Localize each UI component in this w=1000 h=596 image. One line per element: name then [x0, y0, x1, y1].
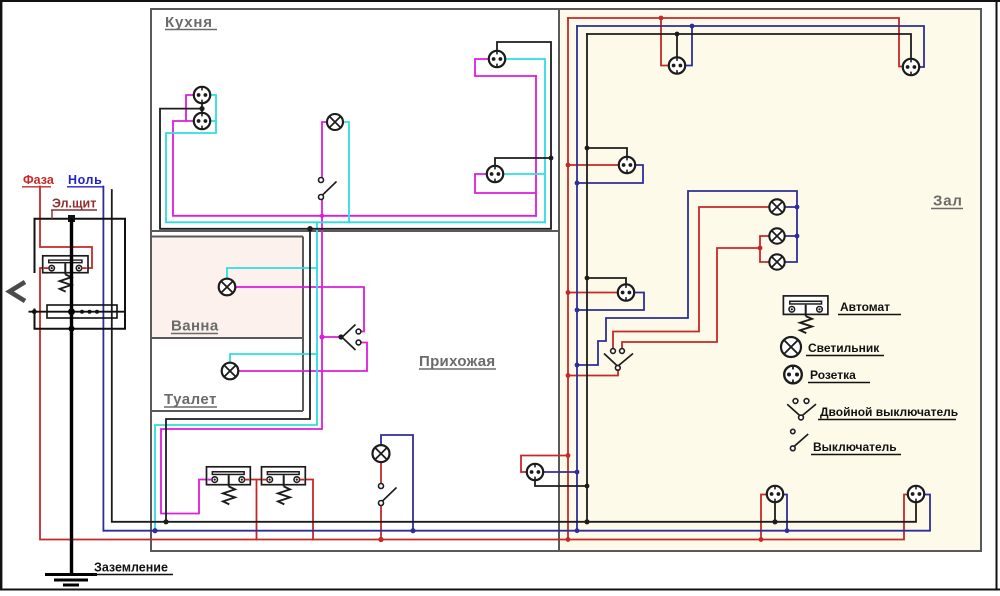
svg-text:Светильник: Светильник — [808, 341, 880, 355]
wire: double switch to lamp 1 (red) — [613, 207, 769, 349]
wire: breaker A1 terminal dashes — [208, 479, 250, 481]
wire: bottom socket A phase tap (red) — [761, 495, 767, 540]
label Светильник — [806, 341, 884, 356]
collapse arrow glyph — [10, 282, 26, 301]
svg-text:Фаза: Фаза — [23, 173, 55, 187]
wire: hallway lamp-switch drop (red) — [380, 462, 382, 540]
wall toilet bottom — [151, 410, 303, 412]
panel neutral bus bar — [29, 305, 126, 318]
bathroom (Ванна) background — [152, 237, 302, 337]
wire: living room top neutral bus (blue) — [577, 26, 924, 67]
lamp bath — [219, 279, 236, 296]
wire: kitchen left sockets neutral (cyan) — [166, 95, 545, 222]
svg-text:Заземление: Заземление — [94, 561, 168, 575]
node: living ground socket3 — [585, 146, 590, 151]
node: kitchen right ground — [549, 156, 554, 161]
socket kitchen L2 — [194, 113, 210, 129]
node: phase double switch — [566, 373, 571, 378]
svg-text:Выключатель: Выключатель — [813, 440, 897, 454]
node: lamp2 neutral — [795, 234, 800, 239]
ground symbol — [45, 575, 97, 586]
label Эл.щит — [51, 197, 97, 219]
wire: left socket 1 neutral loop (blue) — [577, 165, 643, 183]
node: phase top tap — [659, 16, 664, 21]
wire: kitchen right socket 1 phase (magenta) — [475, 59, 536, 76]
panel breaker spring — [60, 274, 72, 291]
wire: hallway socket neutral (blue) — [543, 471, 577, 473]
breaker A1 (hallway) — [207, 467, 251, 505]
label Кухня — [165, 14, 217, 31]
switch kitchen — [319, 178, 337, 200]
wire: top-center socket ground drop (black) — [676, 34, 678, 57]
lamp hallway — [373, 445, 390, 462]
page top rule — [0, 0, 1000, 2]
lamp kitchen — [327, 114, 343, 130]
node: neutral socket A tap — [785, 528, 790, 533]
node: kitchen ground tap — [307, 226, 313, 232]
wire: neutral lead-in Ноль riser (blue) — [102, 187, 104, 531]
panel input node (square) — [68, 215, 75, 222]
label Двойной выключатель — [818, 405, 958, 420]
wire: lamp group neutral loop (blue) — [577, 191, 797, 365]
node: neutral socket3 — [575, 181, 580, 186]
lamp living 2 — [769, 228, 784, 243]
node: living ground socket4 — [585, 276, 590, 281]
label Заземление — [93, 561, 173, 575]
node: neutral hall socket — [575, 470, 580, 475]
socket living left-upper — [619, 157, 635, 173]
node: neutral socket4 — [575, 308, 580, 313]
label Прихожая — [419, 353, 496, 370]
wire: hallway socket ground (black) — [535, 480, 587, 486]
legend breaker symbol — [783, 296, 828, 333]
wire: kitchen lamp feed via switch (magenta) — [322, 122, 328, 177]
label Автомат — [838, 300, 901, 315]
node: phase hall switch — [378, 537, 383, 542]
node: neutral riser to bus — [152, 528, 157, 533]
wire: phase lead-in Фаза to panel breaker (red) — [40, 187, 92, 269]
wire: kitchen ground riser (black) — [166, 229, 310, 522]
wire: kitchen right sockets neutral (cyan) — [503, 59, 545, 222]
socket living bottom B — [908, 486, 924, 502]
node: neutral top tap — [690, 24, 695, 29]
wire: left socket 2 phase branch (red) — [568, 292, 618, 294]
wall kitchen bottom — [151, 230, 559, 232]
socket kitchen R2 — [487, 166, 503, 182]
wire: ground bottom bus (black) — [112, 190, 916, 522]
svg-text:Автомат: Автомат — [840, 300, 890, 314]
legend switch symbol — [790, 429, 808, 450]
label Туалет — [164, 391, 217, 408]
svg-text:Двойной выключатель: Двойной выключатель — [820, 405, 958, 419]
label Ноль — [67, 173, 104, 187]
label Ванна — [171, 318, 219, 335]
svg-text:Ноль: Ноль — [68, 173, 102, 187]
wire: breaker A2 output (red) — [306, 480, 313, 540]
wire: toilet lamp feed (magenta) — [238, 343, 367, 372]
label Зал — [931, 193, 963, 210]
wire: kitchen left sockets phase (magenta) — [173, 95, 536, 216]
legend lamp symbol — [781, 337, 801, 357]
node: living ground riser top — [675, 32, 680, 37]
wire: left socket 1 phase branch (red) — [568, 164, 619, 166]
node: phase socket3 — [566, 163, 571, 168]
svg-text:Кухня: Кухня — [165, 14, 213, 31]
wire: breaker A2 terminal dashes — [263, 479, 305, 481]
label Фаза — [22, 173, 55, 187]
lamp living 3 — [769, 254, 784, 269]
node: lamps 2-3 feed — [758, 246, 763, 251]
wire: living room top ground bus (black) — [587, 34, 911, 59]
breaker A2 (hallway) — [262, 467, 306, 505]
wire: bath lamp feed (magenta) — [235, 287, 364, 332]
wire: kitchen sockets ground bus (black) — [160, 42, 551, 229]
svg-text:Ванна: Ванна — [171, 318, 219, 335]
wire: kitchen lamp neutral (cyan) — [343, 122, 349, 222]
page bottom rule — [0, 589, 1000, 591]
wire: top-center socket neutral drop (blue) — [685, 26, 692, 66]
legend double switch symbol — [787, 399, 816, 420]
lamp living 1 — [769, 199, 784, 214]
node: kitchen phase bus tap — [320, 214, 324, 218]
apartment outer wall — [151, 9, 981, 551]
svg-text:Эл.щит: Эл.щит — [52, 197, 96, 211]
panel main breaker — [43, 256, 88, 275]
wire: left socket 2 neutral loop (blue) — [577, 293, 644, 311]
node: living ground hall socket — [585, 484, 590, 489]
wall bath right — [302, 237, 304, 412]
wire: living room neutral riser (blue) — [576, 26, 578, 531]
node: living ground bus corner — [584, 519, 589, 524]
socket kitchen L1 — [194, 87, 210, 103]
wire: top-center socket phase drop (red) — [661, 18, 669, 66]
node: bath switch tap — [319, 334, 324, 339]
socket living bottom A — [767, 486, 783, 502]
socket hallway — [527, 464, 543, 480]
svg-text:Прихожая: Прихожая — [419, 353, 495, 370]
node: kitchen sockets link — [199, 106, 204, 111]
wire: kitchen-bath phase riser to breaker A1 (magenta) — [161, 200, 322, 514]
wire: phase bus from breaker to apartment (red) — [40, 268, 908, 540]
svg-text:Зал: Зал — [933, 193, 963, 210]
node: earth at bus bar — [68, 308, 75, 315]
page left border — [0, 0, 2, 589]
wire: bath switch common feed (magenta) — [322, 336, 341, 338]
socket living top-right — [903, 59, 919, 75]
node: phase socket4 — [566, 290, 571, 295]
panel enclosure — [35, 219, 126, 329]
node: phase hall socket — [566, 453, 571, 458]
wire: bottom socket A neutral tap (blue) — [783, 495, 787, 531]
double switch living room — [604, 349, 633, 371]
socket living left-lower — [618, 284, 634, 300]
wire: hallway lamp neutral (blue) — [381, 435, 413, 531]
wire: double switch feed (red) — [568, 371, 618, 376]
wire: bath/toilet neutral riser (cyan) — [155, 222, 317, 530]
node: phase bus corner — [566, 537, 571, 542]
wire: bath lamp neutral (cyan) — [227, 268, 317, 279]
lamp toilet — [222, 363, 239, 380]
wall bath/toilet divider — [151, 337, 303, 339]
node: neutral lamp group — [575, 363, 580, 368]
svg-text:Розетка: Розетка — [810, 368, 856, 382]
label Розетка — [808, 368, 870, 383]
switch hallway — [379, 484, 397, 506]
node: lamp1 neutral — [795, 205, 800, 210]
panel earth conductor (thick) — [70, 219, 73, 575]
node: ground riser to bus — [163, 519, 168, 524]
svg-text:Туалет: Туалет — [164, 391, 217, 408]
wire: living room ground riser (black) — [586, 34, 588, 522]
node: phase socket A tap — [759, 537, 764, 542]
wire: toilet lamp neutral (cyan) — [230, 354, 317, 363]
node: socket A ground — [772, 519, 777, 524]
socket living top-center — [669, 57, 685, 73]
wire: kitchen right socket 2 phase (magenta) — [475, 76, 536, 216]
wire: living room top phase bus (red) — [568, 18, 903, 67]
wire: left socket 2 ground branch (black) — [587, 278, 626, 284]
node: neutral bus corner — [575, 528, 580, 533]
wire: left socket 1 ground branch (black) — [587, 148, 627, 157]
wire: breaker A1 to A2 link with phase tap (red) — [251, 480, 262, 540]
label Выключатель — [811, 440, 901, 455]
wire: neutral bottom bus (blue) — [103, 495, 930, 531]
page right border — [996, 0, 998, 590]
wire: double switch to lamps 2,3 (red) — [622, 236, 769, 349]
wire: panel breaker terminal dashes — [44, 267, 87, 269]
socket kitchen R1 — [489, 51, 505, 67]
node: neutral hall lamp — [410, 528, 415, 533]
node: earth at panel bottom — [69, 326, 75, 332]
living room (Зал) background — [560, 10, 980, 550]
legend socket symbol — [784, 366, 802, 384]
wall bath top — [151, 236, 303, 238]
wire: hallway socket phase (red) — [521, 456, 568, 473]
wall hall/living divider — [558, 9, 560, 551]
double switch bath/toilet — [338, 325, 361, 351]
wire: living room phase riser (red) — [567, 18, 569, 540]
